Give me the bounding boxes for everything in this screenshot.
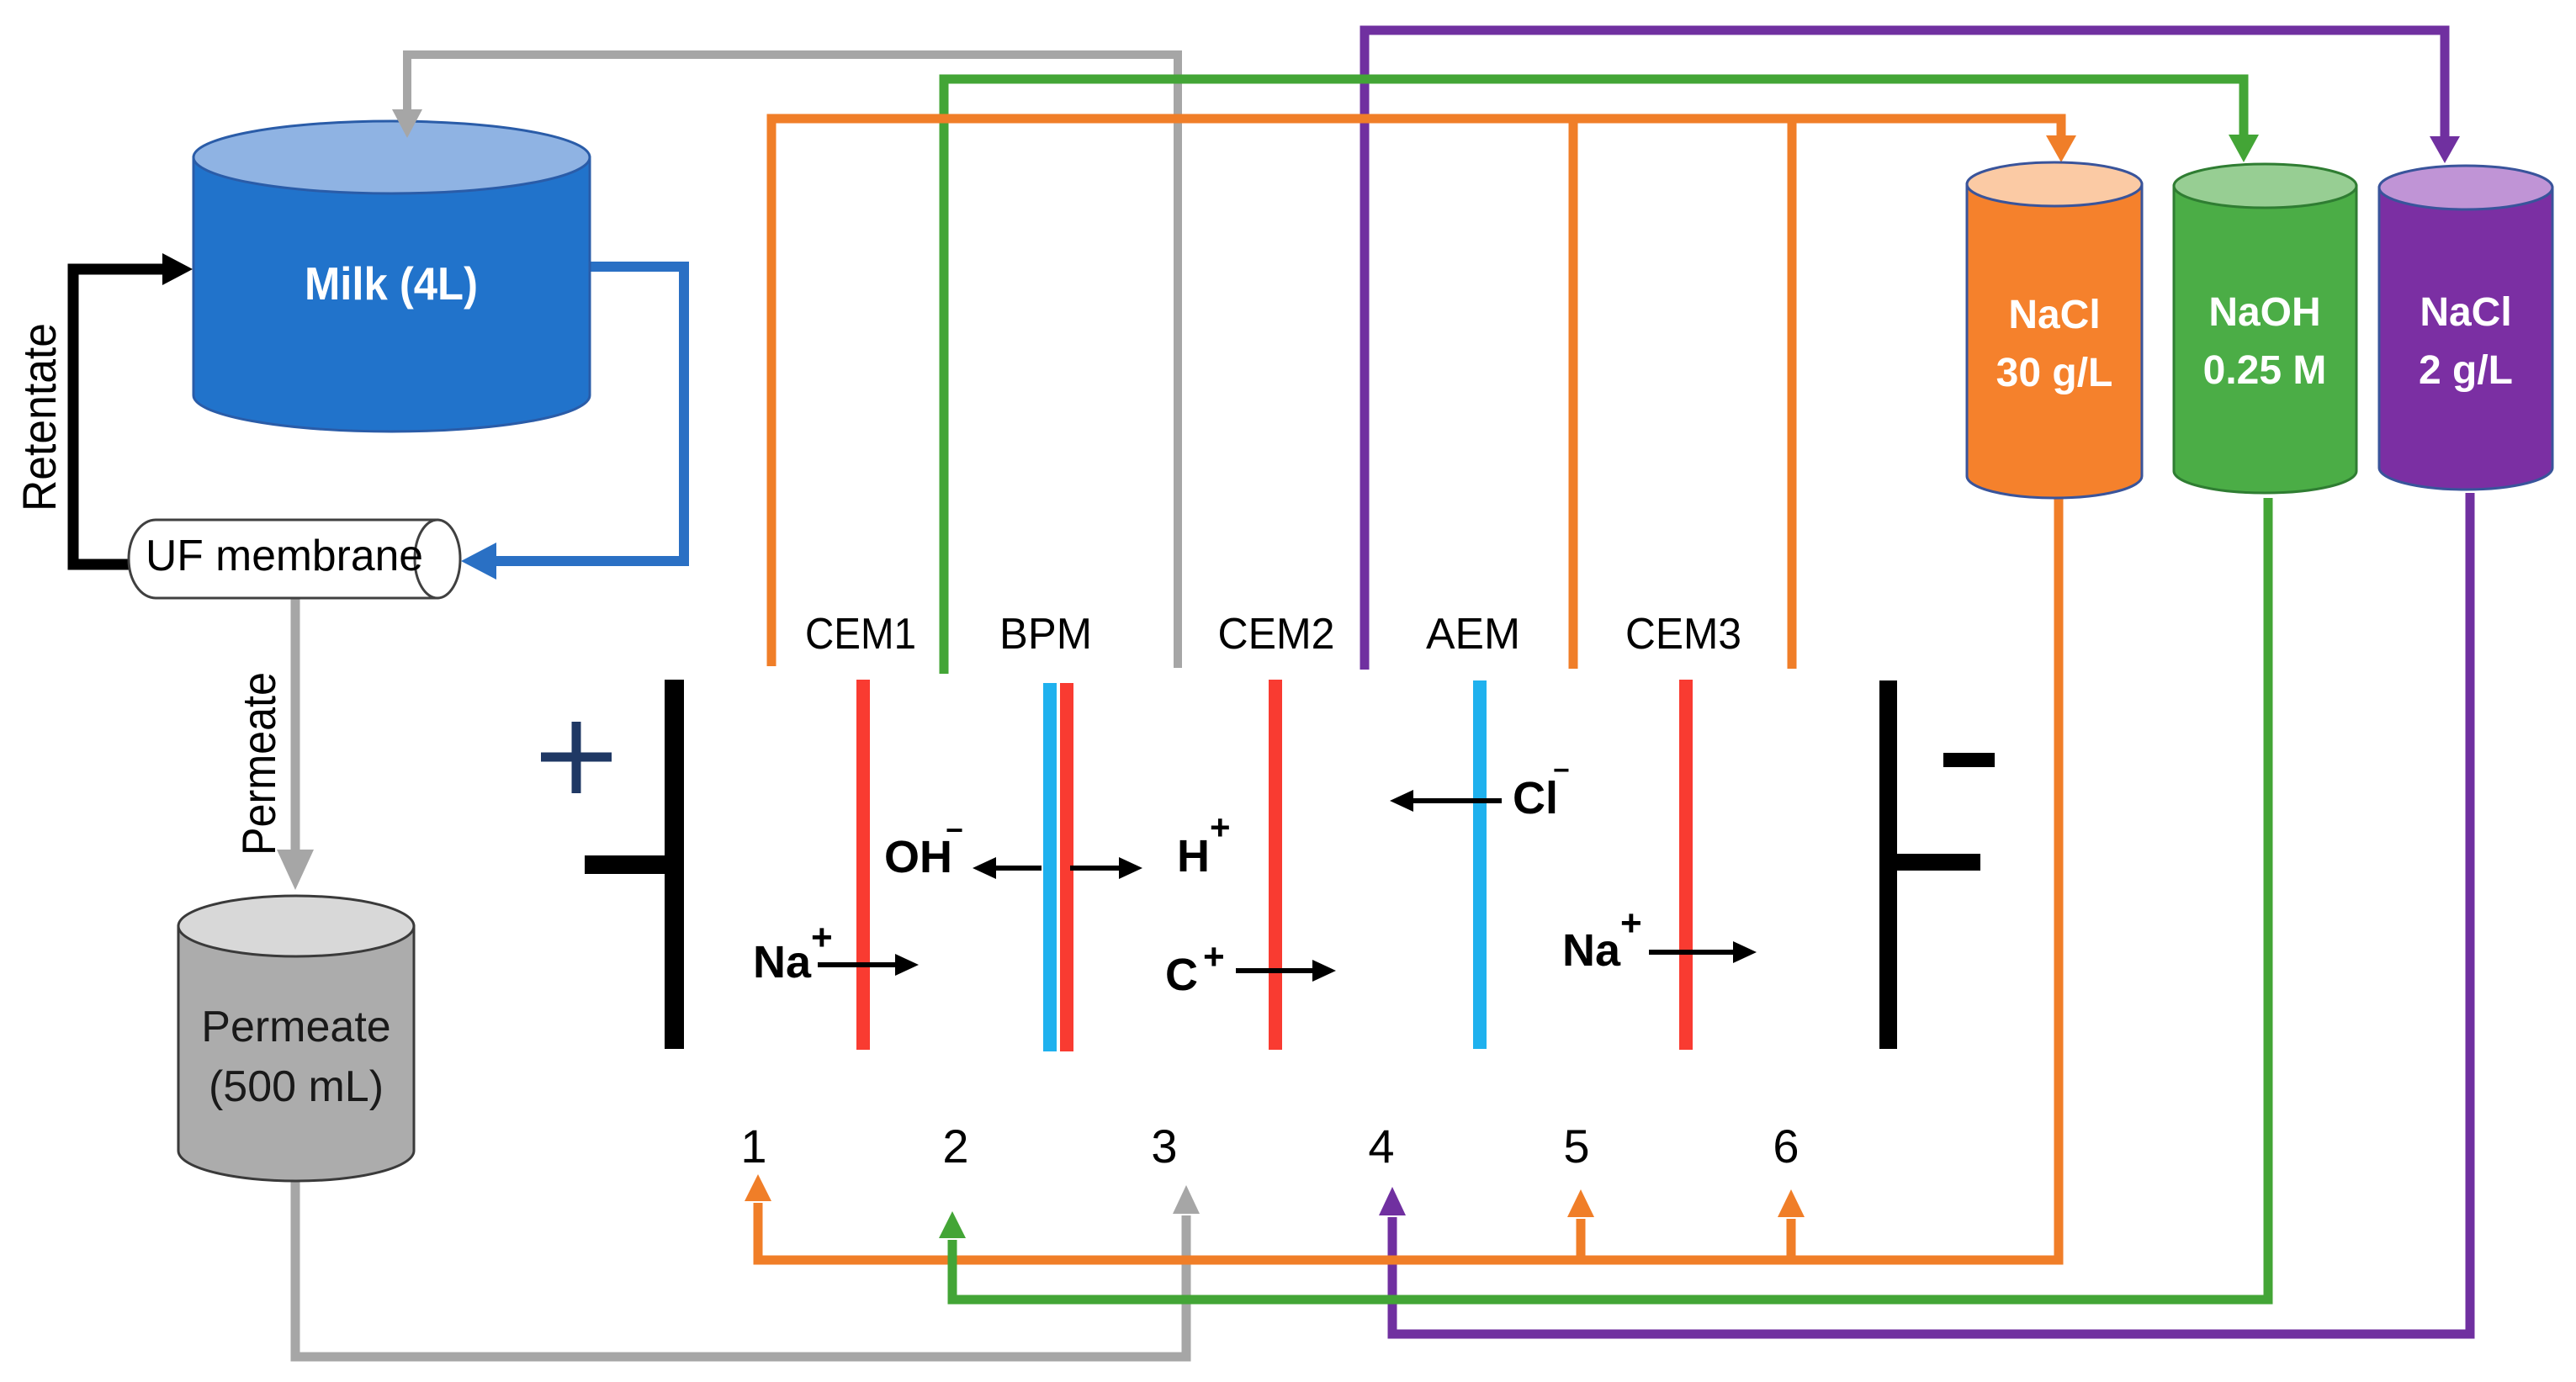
svg-text:AEM: AEM [1426,610,1520,659]
svg-text:4: 4 [1368,1120,1394,1173]
milk tank [193,121,590,432]
svg-text:Retentate: Retentate [13,323,66,511]
anode electrode (left, +) [665,680,684,1049]
svg-text:UF membrane: UF membrane [146,532,423,580]
svg-text:CEM2: CEM2 [1218,610,1335,659]
svg-text:Permeate: Permeate [232,672,285,855]
plus sign [541,722,612,793]
ion arrow Cl- (leftward through AEM) [1412,798,1502,803]
wire gray permeate drop (UF membrane to Permeate tank) [291,598,300,853]
svg-text:3: 3 [1151,1120,1177,1173]
green arrowhead into compartment 2 [939,1211,966,1238]
NaOH tank (green) [2174,164,2356,493]
cathode electrode (right, -) [1879,680,1897,1049]
cathode tab [1897,854,1980,871]
svg-text:0.25 M: 0.25 M [2203,348,2327,393]
membrane BPM (cyan layer) [1043,683,1057,1051]
svg-text:Milk (4L): Milk (4L) [305,257,478,310]
minus sign [1943,753,1995,767]
wire black retentate loop (UF membrane to Milk tank) [73,269,164,564]
svg-text:6: 6 [1773,1120,1799,1173]
NaCl 30 g/L tank (orange) [1967,162,2142,498]
wire gray recirculation loop (stack compartment 3 to Milk tank) [407,55,1178,668]
blue arrowhead into UF membrane [461,543,496,580]
svg-text:5: 5 [1563,1120,1589,1173]
ion arrow Na+ through CEM1 [818,962,897,967]
orange arrowhead into NaCl 30 g/L tank [2046,135,2076,162]
wire green top (compartment 2 to NaOH tank) [944,79,2244,674]
svg-text:(500 mL): (500 mL) [209,1062,384,1111]
ion arrow H+ (rightward from BPM) [1070,866,1121,871]
anode tab [585,855,665,874]
green arrowhead into NaOH tank [2229,135,2259,162]
wire green bottom (NaOH tank to compartment 2) [952,498,2268,1300]
orange arrowhead into compartment 5 [1567,1189,1594,1217]
membrane BPM (red layer) [1060,683,1073,1051]
svg-text:CEM1: CEM1 [805,610,916,659]
membrane CEM2 [1269,680,1282,1050]
wire orange top (compartments 1,5,6 to NaCl 30 g/L tank) [771,119,2061,669]
purple arrowhead into NaCl 2 g/L tank [2430,136,2460,163]
wire purple bottom (NaCl 2 g/L tank to compartment 4) [1392,493,2470,1334]
svg-text:NaOH: NaOH [2208,290,2320,335]
NaCl 2 g/L tank (purple) [2379,166,2552,490]
permeate tank [178,896,414,1181]
UF membrane unit [129,520,460,598]
gray arrowhead into compartment 3 [1173,1185,1200,1214]
svg-text:BPM: BPM [999,610,1092,659]
wire gray bottom (Permeate tank to compartment 3) [295,1181,1186,1357]
svg-text:2: 2 [942,1120,968,1173]
svg-text:1: 1 [740,1120,766,1173]
ion arrow Na+ through CEM3 [1649,950,1735,955]
wire orange bottom (NaCl 30 g/L tank to compartments 1,5,6) [758,498,2059,1260]
wire blue (Milk tank to UF membrane) [495,267,684,561]
purple arrowhead into compartment 4 [1379,1187,1406,1215]
svg-text:Permeate: Permeate [201,1003,390,1051]
membrane AEM [1473,680,1487,1049]
membrane CEM3 [1679,680,1693,1050]
svg-text:NaCl: NaCl [2008,293,2100,337]
gray arrowhead into Milk tank [392,109,422,138]
wire purple top (compartment 4 to NaCl 2 g/L tank) [1365,30,2445,670]
svg-text:NaCl: NaCl [2420,290,2511,335]
svg-text:30 g/L: 30 g/L [1996,351,2113,395]
ion arrow C+ through CEM2 [1236,968,1314,973]
membrane CEM1 [856,680,870,1050]
ion arrow OH- (leftward through BPM) [994,866,1042,871]
black arrowhead into Milk tank [162,253,193,285]
gray arrowhead into Permeate tank [277,850,314,890]
orange arrowhead into compartment 6 [1778,1189,1805,1217]
svg-text:CEM3: CEM3 [1625,610,1741,659]
svg-text:2 g/L: 2 g/L [2419,348,2513,393]
orange arrowhead into compartment 1 [745,1174,771,1201]
